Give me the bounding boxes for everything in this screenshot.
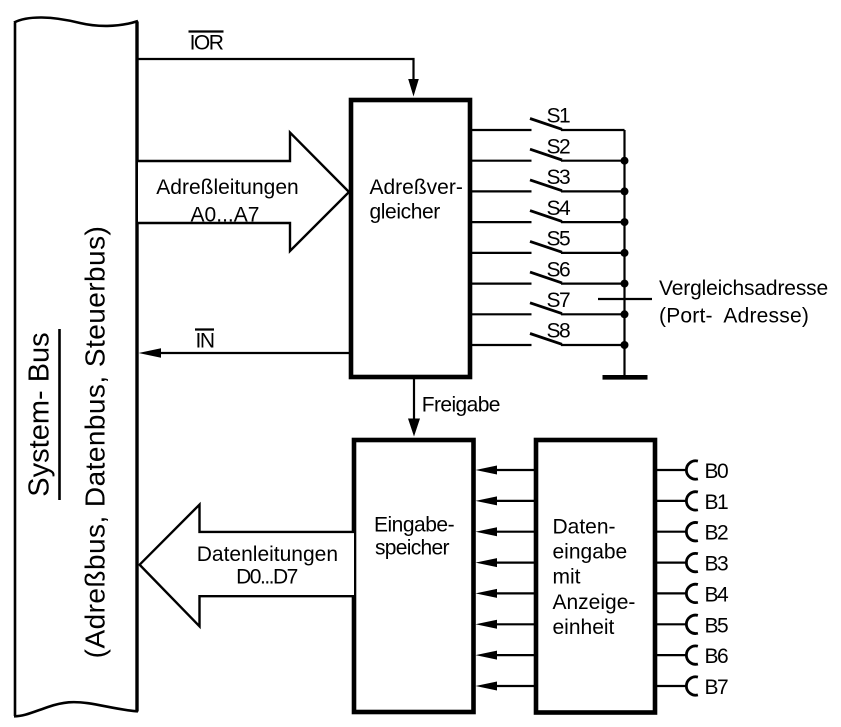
svg-text:S5: S5: [546, 228, 570, 251]
svg-text:IOR: IOR: [190, 32, 224, 55]
switch S1: [472, 105, 625, 130]
svg-text:IN: IN: [196, 330, 214, 353]
svg-text:B6: B6: [705, 645, 729, 668]
switch S6: [472, 258, 625, 283]
arrowhead IN into bus: [139, 348, 162, 358]
svg-text:B5: B5: [705, 614, 729, 637]
wire Freigabe: [413, 379, 415, 428]
bus left edge: [14, 23, 17, 717]
svg-text:B3: B3: [705, 553, 729, 576]
switch S2: [472, 135, 625, 160]
junction dot S7: [621, 310, 629, 318]
svg-text:Adreßver-: Adreßver-: [370, 176, 463, 199]
svg-text:D0...D7: D0...D7: [236, 565, 298, 588]
junction dot S2: [621, 157, 629, 165]
data wire 1: [476, 496, 537, 505]
pointer line Vergleichsadresse: [598, 298, 652, 300]
svg-text:Vergleichsadresse: Vergleichsadresse: [659, 277, 828, 300]
svg-text:B0: B0: [705, 460, 729, 483]
terminal B3: [655, 553, 728, 576]
hollow arrow Adressleitungen: [138, 133, 349, 252]
terminal B5: [655, 614, 728, 637]
overline IN: [195, 328, 214, 330]
svg-text:B2: B2: [705, 522, 729, 545]
svg-text:S7: S7: [546, 289, 570, 312]
junction dot S8: [621, 341, 629, 349]
svg-text:B4: B4: [705, 583, 730, 606]
svg-text:B1: B1: [705, 491, 729, 514]
svg-text:(Port- Adresse): (Port- Adresse): [659, 305, 809, 328]
svg-text:Adreßleitungen: Adreßleitungen: [156, 176, 298, 199]
terminal B6: [655, 645, 728, 668]
terminal B0: [655, 460, 728, 483]
svg-text:speicher: speicher: [375, 537, 449, 560]
switch S7: [472, 289, 625, 314]
switch S4: [472, 197, 625, 222]
junction dot S4: [621, 218, 629, 226]
wire IN: [150, 352, 351, 354]
svg-text:Eingabe-: Eingabe-: [374, 513, 455, 536]
arrowhead Freigabe into U2: [408, 419, 420, 437]
data wire 6: [476, 651, 537, 660]
svg-text:Daten-: Daten-: [553, 516, 616, 539]
switch S8: [472, 320, 625, 345]
svg-text:Datenleitungen: Datenleitungen: [197, 543, 338, 566]
svg-text:S8: S8: [546, 320, 570, 343]
data wire 3: [476, 558, 537, 567]
svg-text:Anzeige-: Anzeige-: [553, 591, 636, 614]
terminal B2: [655, 522, 728, 545]
hollow arrow Datenleitungen: [140, 505, 354, 627]
svg-text:S3: S3: [546, 166, 570, 189]
svg-text:(Adreßbus, Datenbus, Steuerbus: (Adreßbus, Datenbus, Steuerbus): [80, 226, 111, 659]
block U2 Eingabespeicher: [354, 440, 474, 712]
bus torn top edge: [14, 17, 138, 25]
junction dot S6: [621, 280, 629, 288]
block U3 Dateneingabe mit Anzeigeeinheit: [536, 440, 655, 713]
switch S3: [472, 166, 625, 191]
terminal B7: [655, 676, 728, 699]
svg-text:S1: S1: [546, 105, 570, 128]
data wire 0: [476, 466, 537, 475]
svg-text:S6: S6: [546, 258, 570, 281]
wire switch collector: [623, 130, 625, 376]
svg-text:gleicher: gleicher: [370, 201, 441, 224]
data wire 7: [476, 682, 537, 691]
arrowhead IOR into U1: [408, 79, 419, 97]
data wire 4: [476, 589, 537, 598]
junction dot S3: [621, 187, 629, 195]
svg-text:A0...A7: A0...A7: [191, 204, 260, 227]
bus label underline: [58, 329, 61, 500]
terminal B4: [655, 583, 729, 606]
svg-text:System- Bus: System- Bus: [24, 332, 56, 496]
svg-text:mit: mit: [553, 566, 581, 589]
overline IOR: [189, 30, 224, 32]
data wire 5: [476, 620, 537, 629]
bus torn bottom edge: [14, 702, 138, 716]
data wire 2: [476, 527, 537, 536]
terminal B1: [655, 491, 728, 514]
block U1 Adressvergleicher: [351, 100, 470, 377]
svg-text:B7: B7: [705, 676, 729, 699]
svg-text:eingabe: eingabe: [553, 541, 628, 564]
svg-text:einheit: einheit: [553, 616, 615, 639]
svg-text:S4: S4: [546, 197, 571, 220]
ground: [603, 375, 648, 380]
junction dot S5: [621, 249, 629, 257]
svg-text:S2: S2: [546, 135, 570, 158]
wire IOR: [137, 59, 414, 89]
svg-text:Freigabe: Freigabe: [422, 394, 500, 417]
switch S5: [472, 228, 625, 253]
bus right edge: [135, 22, 138, 712]
